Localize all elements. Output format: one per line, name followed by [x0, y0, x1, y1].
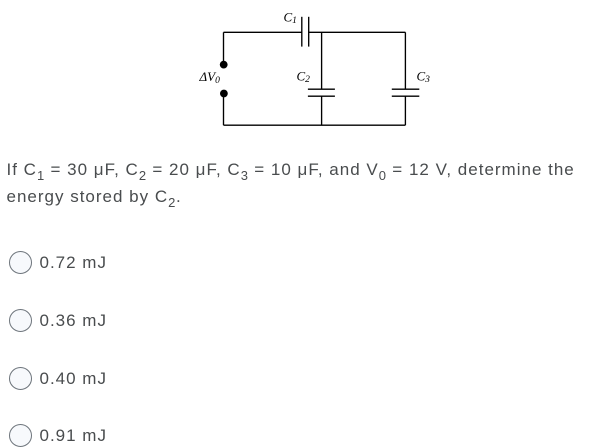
circuit schematic figure: [0, 0, 595, 150]
wire: bottom: [224, 124, 406, 126]
svg-text:C3: C3: [417, 69, 431, 86]
option 2: [8, 309, 10, 333]
wire: left vertical lower (from terminal to bottom): [223, 95, 225, 125]
question text: [7, 156, 595, 210]
svg-text:ΔV0: ΔV0: [199, 69, 221, 86]
capacitor C2 plates: [308, 88, 335, 90]
option 1: [8, 251, 10, 275]
svg-text:C1: C1: [284, 10, 297, 27]
option 4: [8, 424, 10, 448]
wire: right vertical lower (C3 bottom lead): [404, 96, 406, 125]
wire: middle branch upper (C2 top lead): [321, 32, 323, 89]
terminal node (bottom): [220, 90, 228, 98]
wire: left vertical upper (to terminal): [223, 32, 225, 62]
capacitor C1 plates: [301, 17, 303, 47]
wire: C1 right plate to top-right corner: [309, 31, 406, 33]
option 3: [8, 367, 10, 391]
wire: top-left segment to C1 left plate: [224, 31, 302, 33]
svg-text:C2: C2: [297, 69, 311, 86]
capacitor C3 plates: [392, 88, 420, 90]
terminal node (top): [220, 61, 228, 69]
wire: right vertical upper (C3 top lead): [404, 32, 406, 89]
wire: middle branch lower (C2 bottom lead): [321, 96, 323, 125]
